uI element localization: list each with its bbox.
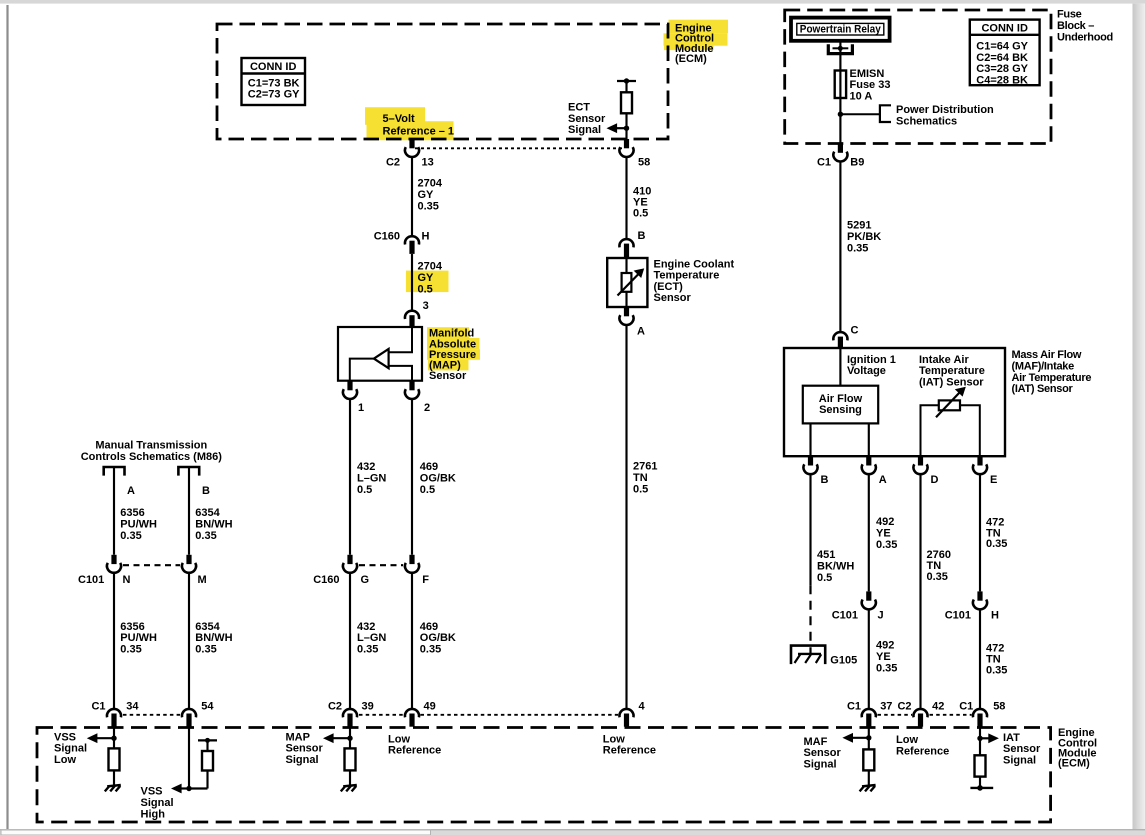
svg-text:39: 39 (362, 700, 374, 712)
svg-text:BK/WH: BK/WH (817, 560, 854, 572)
svg-text:0.35: 0.35 (357, 643, 378, 655)
svg-text:Signal: Signal (286, 754, 319, 766)
dotted tie line C2-13 to 58 (415, 147, 624, 149)
label Low Reference (MAP) (388, 733, 441, 756)
svg-text:M: M (198, 574, 207, 586)
svg-text:B9: B9 (850, 157, 864, 169)
connector C1-58 (959, 700, 1005, 726)
connector C101-J (832, 591, 884, 621)
AFS output wires (811, 423, 869, 456)
VSS signal high node (141, 720, 192, 821)
svg-text:(ECM): (ECM) (1058, 758, 1090, 770)
svg-text:Temperature: Temperature (919, 365, 985, 377)
svg-text:Signal: Signal (804, 759, 837, 771)
svg-text:0.35: 0.35 (418, 201, 439, 213)
svg-text:L–GN: L–GN (357, 632, 386, 644)
svg-text:Signal: Signal (54, 743, 87, 755)
resistor MAP signal (345, 748, 356, 785)
svg-text:0.35: 0.35 (420, 643, 441, 655)
svg-text:6356: 6356 (120, 621, 144, 633)
svg-text:IAT: IAT (1003, 732, 1020, 744)
svg-text:C1=64 GY: C1=64 GY (976, 41, 1028, 53)
svg-text:Voltage: Voltage (847, 365, 886, 377)
svg-text:Low: Low (388, 733, 410, 745)
ground G105 (791, 646, 857, 667)
resistor MAF signal (863, 749, 874, 785)
svg-text:Sensor: Sensor (568, 113, 606, 125)
svg-text:0.35: 0.35 (195, 530, 216, 542)
svg-text:0.5: 0.5 (420, 484, 435, 496)
MAF/IAT sensor box (784, 348, 1005, 456)
wire 410 YE 0.5 (627, 158, 652, 239)
label Engine Coolant Temperature (ECT) Sensor (654, 258, 735, 304)
svg-text:C2: C2 (386, 156, 400, 168)
frame top strip (0, 0, 1145, 4)
wire 432 L-GN 0.5 (350, 400, 386, 555)
wire 6354 BN/WH 0.35 (upper) (189, 467, 233, 555)
svg-text:N: N (123, 574, 131, 586)
wire 2704 GY 0.35 (412, 158, 443, 236)
svg-text:451: 451 (817, 549, 835, 561)
connector C2-42 (897, 700, 944, 726)
ECM dashed box (top) (217, 24, 668, 139)
svg-text:Ignition 1: Ignition 1 (847, 354, 896, 366)
svg-text:0.5: 0.5 (633, 208, 648, 220)
svg-text:Mass Air Flow: Mass Air Flow (1012, 349, 1082, 361)
svg-text:6354: 6354 (195, 621, 220, 633)
svg-text:C2: C2 (328, 700, 342, 712)
svg-text:0.35: 0.35 (120, 530, 141, 542)
wire 451 BK/WH 0.5 (811, 475, 855, 655)
svg-text:D: D (931, 474, 939, 486)
svg-text:Sensor: Sensor (429, 370, 467, 382)
svg-text:0.35: 0.35 (120, 643, 141, 655)
wire 472 TN 0.35 (upper) (980, 475, 1007, 592)
connector C1-37 (847, 700, 893, 726)
svg-text:Low: Low (54, 754, 76, 766)
frame bottom scrollbar strip (0, 829, 1145, 835)
connector MAF-B (803, 456, 828, 486)
svg-text:C2: C2 (897, 700, 911, 712)
connector C160-F (405, 555, 429, 586)
svg-text:Reference: Reference (388, 745, 441, 757)
wire 6356 PU/WH 0.35 (lower) (114, 574, 157, 709)
svg-text:A: A (879, 474, 887, 486)
tie line 39-49-4 (359, 714, 618, 716)
svg-text:A: A (127, 485, 135, 497)
label Mass Air Flow (MAF)/Intake Air Temperature (IAT) Sensor (1012, 349, 1092, 395)
wire 432 L-GN 0.35 (350, 574, 386, 709)
connector ECT-A (619, 307, 645, 338)
svg-text:42: 42 (932, 700, 944, 712)
label Intake Air Temperature (IAT) Sensor (919, 354, 985, 389)
resistor IAT signal (975, 755, 986, 788)
svg-text:34: 34 (126, 700, 139, 712)
svg-text:Engine Coolant: Engine Coolant (654, 258, 735, 270)
svg-text:Power Distribution: Power Distribution (896, 104, 994, 116)
svg-text:Sensor: Sensor (654, 292, 692, 304)
svg-text:0.5: 0.5 (633, 484, 648, 496)
svg-text:0.5: 0.5 (357, 484, 372, 496)
off-page bracket A (104, 467, 125, 476)
svg-text:PU/WH: PU/WH (120, 632, 157, 644)
svg-text:YE: YE (876, 651, 891, 663)
fuse EMISN Fuse 33 10A (835, 68, 891, 103)
svg-text:C1: C1 (847, 700, 861, 712)
wire 2760 TN 0.35 (921, 475, 951, 709)
svg-text:C160: C160 (374, 230, 400, 242)
svg-text:1: 1 (358, 402, 364, 414)
svg-text:Intake Air: Intake Air (919, 354, 969, 366)
svg-text:Low: Low (603, 733, 625, 745)
svg-text:Air Temperature: Air Temperature (1012, 372, 1092, 384)
svg-text:3: 3 (423, 300, 429, 312)
relay pin bracket (828, 44, 852, 53)
svg-text:OG/BK: OG/BK (420, 472, 456, 484)
connector MAF-E (973, 456, 997, 486)
svg-text:GY: GY (418, 189, 435, 201)
svg-text:Reference: Reference (896, 745, 949, 757)
svg-text:Temperature: Temperature (654, 270, 720, 282)
connector C160-H (374, 230, 430, 254)
svg-text:492: 492 (876, 640, 894, 652)
ground MAP signal (341, 785, 357, 791)
svg-text:Schematics: Schematics (896, 116, 957, 128)
svg-text:H: H (422, 230, 430, 242)
highlight GY 0.5 wire label (406, 271, 449, 293)
svg-text:(ECT): (ECT) (654, 281, 684, 293)
IAT sensor signal node (977, 720, 1041, 767)
svg-text:0.35: 0.35 (876, 539, 897, 551)
label Ignition 1 Voltage (847, 354, 896, 377)
svg-text:2761: 2761 (633, 461, 657, 473)
svg-text:5291: 5291 (847, 219, 871, 231)
label Manual Transmission Controls Schematics (M86) (81, 440, 223, 463)
svg-text:Sensor: Sensor (1003, 743, 1041, 755)
resistor (ECT pull-up in ECM) (617, 78, 636, 139)
svg-text:VSS: VSS (141, 785, 163, 797)
connector C101-M (182, 555, 207, 586)
svg-text:13: 13 (422, 156, 434, 168)
svg-text:MAF: MAF (804, 736, 828, 748)
svg-text:432: 432 (357, 621, 375, 633)
svg-text:37: 37 (880, 700, 892, 712)
connector MAF-C (833, 325, 858, 350)
svg-text:EMISN: EMISN (850, 68, 885, 80)
svg-text:C1: C1 (959, 700, 973, 712)
svg-text:ECT: ECT (568, 102, 590, 114)
junction dot fuse branch (838, 112, 843, 117)
svg-text:6354: 6354 (195, 507, 220, 519)
tie line C101 N-M (123, 564, 180, 566)
svg-text:0.5: 0.5 (817, 572, 832, 584)
svg-text:C1: C1 (817, 157, 831, 169)
svg-text:L–GN: L–GN (357, 472, 386, 484)
label Fuse Block - Underhood (1057, 9, 1113, 44)
svg-text:469: 469 (420, 621, 438, 633)
svg-text:(MAF)/Intake: (MAF)/Intake (1012, 360, 1075, 372)
svg-text:C160: C160 (313, 574, 339, 586)
connector C101-H (945, 591, 999, 621)
MAP sensor signal node (286, 720, 353, 766)
svg-text:C2=64 BK: C2=64 BK (976, 52, 1028, 64)
svg-text:2: 2 (424, 402, 430, 414)
tie line 34-54 (123, 714, 180, 716)
arrow ECT sensor signal (607, 123, 630, 133)
svg-text:C3=28 GY: C3=28 GY (976, 63, 1028, 75)
svg-text:B: B (821, 474, 829, 486)
svg-text:58: 58 (638, 156, 650, 168)
svg-text:Controls Schematics (M86): Controls Schematics (M86) (81, 451, 223, 463)
svg-text:0.5: 0.5 (418, 284, 433, 296)
svg-text:Sensor: Sensor (286, 743, 324, 755)
svg-text:G: G (361, 574, 370, 586)
svg-text:YE: YE (876, 527, 891, 539)
tie line 37-42-58 (878, 714, 972, 716)
connector 49 (405, 700, 436, 726)
frame right strip (1133, 4, 1145, 830)
ECM dashed box (bottom) (37, 728, 1051, 823)
label 5-Volt Reference - 1 (383, 113, 455, 137)
svg-text:0.35: 0.35 (986, 538, 1007, 550)
svg-text:C101: C101 (945, 610, 971, 622)
svg-text:C1=73 BK: C1=73 BK (248, 77, 300, 89)
wire 469 OG/BK 0.35 (412, 574, 456, 709)
svg-text:Low: Low (896, 734, 918, 746)
svg-text:H: H (991, 610, 999, 622)
wire ignition 1 voltage (839, 348, 841, 386)
svg-text:G105: G105 (830, 654, 857, 666)
svg-text:E: E (990, 474, 997, 486)
connector C1-B9 (817, 144, 864, 169)
MAP internal amplifier triangle (350, 327, 412, 381)
connector MAP pin 1 (343, 381, 364, 414)
wire relay to fuse (839, 41, 841, 144)
Powertrain Relay box (791, 18, 890, 41)
label Engine Control Module (ECM) bottom (1058, 727, 1097, 769)
svg-text:B: B (202, 485, 210, 497)
wire 472 TN 0.35 (lower) (980, 610, 1007, 708)
svg-text:0.35: 0.35 (927, 571, 948, 583)
connector MAP pin 2 (405, 381, 430, 414)
label Low Reference (ECT) (603, 733, 656, 756)
tie line C160 G-F (359, 564, 403, 566)
connector 58 (ECM) (619, 139, 650, 168)
svg-text:MAP: MAP (286, 731, 310, 743)
svg-text:GY: GY (418, 272, 435, 284)
svg-text:6356: 6356 (120, 507, 144, 519)
IAT termination node (970, 785, 993, 791)
wire 5291 PK/BK 0.35 (840, 162, 881, 331)
highlight 5-Volt Reference - 1 (365, 107, 454, 140)
svg-text:High: High (141, 808, 166, 820)
frame left border line (6, 5, 8, 829)
resistor VSS high (189, 738, 217, 789)
CONN ID table (fuse block) (970, 20, 1040, 87)
branch to Power Distribution (840, 104, 994, 127)
svg-text:Signal: Signal (141, 797, 174, 809)
connector MAP pin 3 (405, 300, 429, 328)
wire 2704 GY 0.5 (412, 254, 443, 310)
svg-text:0.35: 0.35 (195, 643, 216, 655)
svg-text:0.35: 0.35 (847, 242, 868, 254)
connector C2-13 (386, 139, 434, 168)
svg-text:4: 4 (639, 700, 646, 712)
svg-text:Manual Transmission: Manual Transmission (95, 440, 207, 452)
svg-text:5–Volt: 5–Volt (383, 113, 416, 125)
svg-text:2704: 2704 (418, 261, 443, 273)
wire 2761 TN 0.5 (627, 326, 658, 709)
svg-text:B: B (638, 230, 646, 242)
svg-text:C101: C101 (78, 574, 104, 586)
svg-text:432: 432 (357, 461, 375, 473)
svg-text:Signal: Signal (1003, 755, 1036, 767)
IAT thermistor symbol (921, 387, 980, 456)
svg-text:CONN ID: CONN ID (981, 22, 1028, 34)
svg-text:C1: C1 (91, 700, 105, 712)
connector MAF-A (862, 456, 887, 486)
svg-text:Sensor: Sensor (804, 747, 842, 759)
svg-text:A: A (637, 326, 645, 338)
connector C2-39 (328, 700, 374, 726)
svg-text:BN/WH: BN/WH (195, 518, 232, 530)
svg-text:Reference: Reference (603, 745, 656, 757)
svg-text:Underhood: Underhood (1057, 32, 1113, 44)
svg-text:(IAT) Sensor: (IAT) Sensor (1012, 383, 1074, 395)
highlight MAP sensor label (427, 327, 480, 370)
svg-text:J: J (878, 610, 884, 622)
ECT sensor box (607, 258, 647, 307)
svg-text:F: F (422, 574, 429, 586)
svg-text:C101: C101 (832, 610, 858, 622)
svg-text:YE: YE (633, 196, 648, 208)
svg-text:Block –: Block – (1057, 20, 1094, 32)
wire 469 OG/BK 0.5 (412, 400, 456, 555)
svg-text:Reference – 1: Reference – 1 (383, 125, 455, 137)
MAF sensor signal node (804, 720, 872, 771)
svg-text:2704: 2704 (418, 177, 443, 189)
svg-text:54: 54 (201, 700, 214, 712)
svg-text:(IAT) Sensor: (IAT) Sensor (919, 377, 984, 389)
connector MAF-D (913, 456, 938, 486)
connector C160-G (313, 555, 369, 586)
resistor VSS low (109, 748, 120, 785)
svg-text:Powertrain Relay: Powertrain Relay (800, 24, 882, 36)
svg-text:OG/BK: OG/BK (420, 632, 456, 644)
svg-text:58: 58 (993, 700, 1005, 712)
label MAP sensor (429, 328, 476, 382)
svg-text:C4=28 BK: C4=28 BK (976, 74, 1028, 86)
svg-text:Signal: Signal (568, 124, 601, 136)
svg-text:(ECM): (ECM) (675, 53, 707, 65)
svg-text:49: 49 (424, 700, 436, 712)
svg-text:C: C (851, 325, 859, 337)
svg-text:C2=73 GY: C2=73 GY (248, 89, 300, 101)
svg-text:TN: TN (633, 472, 648, 484)
connector 54 (182, 700, 214, 726)
svg-text:Sensing: Sensing (819, 404, 862, 416)
connector ECT-B (619, 230, 645, 258)
wire 492 YE 0.35 (upper) (869, 475, 898, 592)
off-page bracket B (178, 467, 199, 476)
MAP sensor box (338, 327, 422, 381)
svg-text:492: 492 (876, 516, 894, 528)
label Engine Control Module (ECM) top (675, 23, 714, 66)
svg-text:VSS: VSS (54, 731, 76, 743)
connector 4 (619, 700, 645, 726)
wire 6354 BN/WH 0.35 (lower) (189, 574, 233, 709)
svg-text:PK/BK: PK/BK (847, 231, 881, 243)
svg-text:10 A: 10 A (850, 90, 873, 102)
label ECT Sensor Signal (568, 102, 606, 137)
svg-text:BN/WH: BN/WH (195, 632, 232, 644)
ground VSS low (105, 785, 121, 791)
svg-text:0.35: 0.35 (986, 664, 1007, 676)
svg-text:0.35: 0.35 (876, 663, 897, 675)
svg-text:Fuse: Fuse (1057, 9, 1082, 21)
svg-text:Fuse 33: Fuse 33 (850, 79, 891, 91)
connector C1-34 (91, 700, 139, 726)
VSS signal low node (54, 720, 117, 766)
svg-text:CONN ID: CONN ID (250, 61, 297, 73)
ground MAF signal (860, 785, 876, 791)
svg-text:PU/WH: PU/WH (120, 518, 157, 530)
CONN ID table (ECM) (242, 58, 306, 105)
highlight Engine Control Module label (664, 20, 729, 50)
label Low Reference (MAF) (896, 734, 949, 757)
wire 6356 PU/WH 0.35 (upper) (114, 467, 157, 555)
Fuse Block dashed box (785, 10, 1051, 144)
connector C101-N (78, 555, 130, 586)
svg-text:469: 469 (420, 461, 438, 473)
wire 492 YE 0.35 (lower) (869, 610, 898, 708)
Air Flow Sensing box (803, 386, 878, 424)
ECT thermistor symbol (618, 258, 645, 307)
